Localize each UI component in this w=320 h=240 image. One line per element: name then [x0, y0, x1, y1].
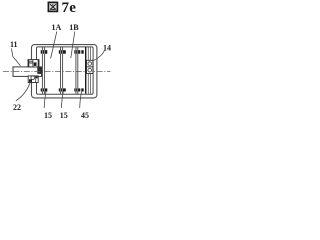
plate 3 bottom block: [74, 88, 80, 91]
centerline (dash-dot axis): [3, 71, 111, 73]
plate 1 (15): [42, 47, 44, 94]
svg-text:1B: 1B: [69, 23, 79, 32]
svg-text:11: 11: [10, 40, 18, 49]
plate 2 bottom block: [59, 88, 66, 91]
right support plate: [88, 47, 90, 94]
plate 3 top block: [74, 50, 80, 54]
plate 2 (15): [61, 47, 63, 94]
leader 14: [93, 51, 105, 61]
leader 1A: [51, 32, 57, 59]
block slits: [42, 50, 77, 54]
svg-text:22: 22: [13, 103, 21, 112]
shaft hub (dark): [37, 67, 42, 74]
svg-text:45: 45: [81, 111, 89, 120]
housing inner wall: [37, 47, 94, 94]
plate 3: [76, 47, 78, 94]
leader 1B: [71, 32, 75, 59]
svg-text:15: 15: [44, 111, 52, 120]
left bearing upper: [28, 60, 39, 67]
svg-text:15: 15: [60, 111, 68, 120]
leader 11: [12, 49, 21, 66]
shaft 11: [13, 67, 42, 77]
right bearing upper square: [87, 60, 93, 67]
dark bar 45: [85, 47, 86, 94]
plate 1 bottom block: [41, 88, 48, 91]
housing outer wall: [32, 45, 97, 98]
right bearing lower square: [87, 67, 93, 74]
left bearing lower (22): [28, 76, 38, 83]
leader 15 left: [44, 92, 46, 108]
small block bottom (45): [81, 88, 83, 91]
leader 45: [80, 92, 82, 108]
leader 22: [16, 81, 31, 101]
plate 2 top block: [59, 50, 66, 54]
leader 15 middle: [61, 92, 63, 108]
svg-text:7e: 7e: [62, 0, 77, 16]
plate 1 top block: [41, 50, 48, 54]
svg-text:1A: 1A: [52, 23, 62, 32]
figure label icon (boxed kanji ZU): [48, 2, 57, 11]
small block top (45): [81, 50, 83, 54]
